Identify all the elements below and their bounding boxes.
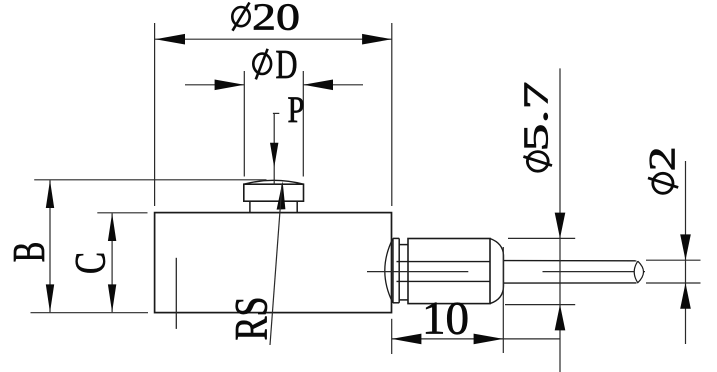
cable top <box>504 260 637 262</box>
inner cable line lower <box>397 280 491 282</box>
label phiD symbol slash <box>256 49 268 80</box>
dim C line <box>111 213 113 312</box>
cable end lens <box>634 261 643 283</box>
button stem left <box>249 201 251 212</box>
dim phi2 line <box>685 161 687 344</box>
label phi2 symbol slash <box>648 178 678 188</box>
dim phi20 left extension line <box>154 23 156 206</box>
dim phi2 upper arrowhead <box>680 234 691 260</box>
body outline (load cell cylinder, side view) <box>155 213 392 313</box>
dim phiD right extension line <box>302 71 304 177</box>
button cap rect <box>244 184 304 201</box>
dim B line <box>49 180 51 312</box>
leader P line <box>273 113 275 185</box>
dim phi20 line <box>155 38 392 40</box>
svg-text:2: 2 <box>643 146 684 171</box>
label phiD symbol circle <box>253 54 271 74</box>
dim 10 left extension line <box>391 319 393 354</box>
dim phiD right tail line <box>303 84 363 86</box>
label phi5.7 symbol slash <box>523 157 552 166</box>
dim B top arrowhead <box>46 180 54 208</box>
svg-text:20: 20 <box>252 0 300 38</box>
dim B C bottom extension line <box>31 312 149 314</box>
barrel outline <box>408 239 490 304</box>
leader RS line <box>270 184 282 345</box>
label B <box>4 242 54 263</box>
dim phi2 lower arrowhead <box>680 283 691 309</box>
dim 10 line <box>392 338 560 340</box>
dim phi5.7 top extension line <box>508 237 575 239</box>
dim B top extension line <box>34 179 266 181</box>
dim phi5.7 line <box>559 68 561 372</box>
dome end cap <box>490 239 504 304</box>
svg-text:RS: RS <box>226 297 278 341</box>
label phi2 digit <box>643 146 684 171</box>
dim C top arrowhead <box>108 213 116 241</box>
leader P arrowhead <box>270 143 278 168</box>
dim phiD left extension line <box>243 71 245 177</box>
inner cable line upper <box>397 261 491 263</box>
washer top <box>393 237 399 239</box>
dim phi5.7 upper arrowhead <box>555 213 566 239</box>
svg-text:P: P <box>288 90 305 131</box>
svg-text:C: C <box>68 252 115 274</box>
leader RS arrowhead <box>277 181 286 209</box>
washer bottom <box>393 302 399 304</box>
button dome arc <box>244 180 304 184</box>
dim 10 left arrowhead <box>392 334 422 345</box>
dim 10 right arrowhead <box>474 334 504 345</box>
dim phi2 top extension line <box>646 259 701 261</box>
leader P hook <box>273 112 279 114</box>
dim phi20 right extension line <box>391 23 393 206</box>
dim phi20 right arrowhead <box>362 34 392 45</box>
label C <box>68 252 115 274</box>
dim C bottom arrowhead <box>108 284 116 312</box>
washer right edge <box>398 238 400 302</box>
label RS <box>226 297 278 341</box>
washer left edge <box>392 238 394 302</box>
dim 10 right extension line <box>502 247 504 353</box>
neck top <box>399 244 408 246</box>
dim phi5.7 lower arrowhead <box>555 305 566 331</box>
dim phiD right arrowhead <box>303 80 333 91</box>
hole centerline inside body <box>175 258 177 329</box>
dim phi5.7 bottom extension line <box>505 304 575 306</box>
label phi20 symbol slash <box>233 3 250 31</box>
svg-text:B: B <box>4 242 54 263</box>
label phi20 symbol circle <box>232 7 249 26</box>
svg-text:5.7: 5.7 <box>518 82 556 152</box>
label phi5.7 digits <box>518 82 556 152</box>
dim phiD left arrowhead <box>215 80 245 91</box>
centerline dash 1 <box>367 271 468 273</box>
button stem right <box>296 201 298 212</box>
dim phiD left tail line <box>185 84 244 86</box>
dim phi20 left arrowhead <box>155 34 185 45</box>
svg-text:10: 10 <box>422 292 469 344</box>
label phi2 symbol circle <box>653 173 673 193</box>
centerline dash 2 <box>543 271 646 273</box>
dim B bottom arrowhead <box>46 284 54 312</box>
label phi5.7 symbol circle <box>527 152 548 172</box>
svg-text:D: D <box>276 41 298 87</box>
neck bottom <box>399 299 408 301</box>
dim C top extension line <box>97 212 147 214</box>
gland lens arc on body edge <box>385 238 393 303</box>
dim phi2 bottom extension line <box>646 282 701 284</box>
cable bottom <box>504 282 637 284</box>
